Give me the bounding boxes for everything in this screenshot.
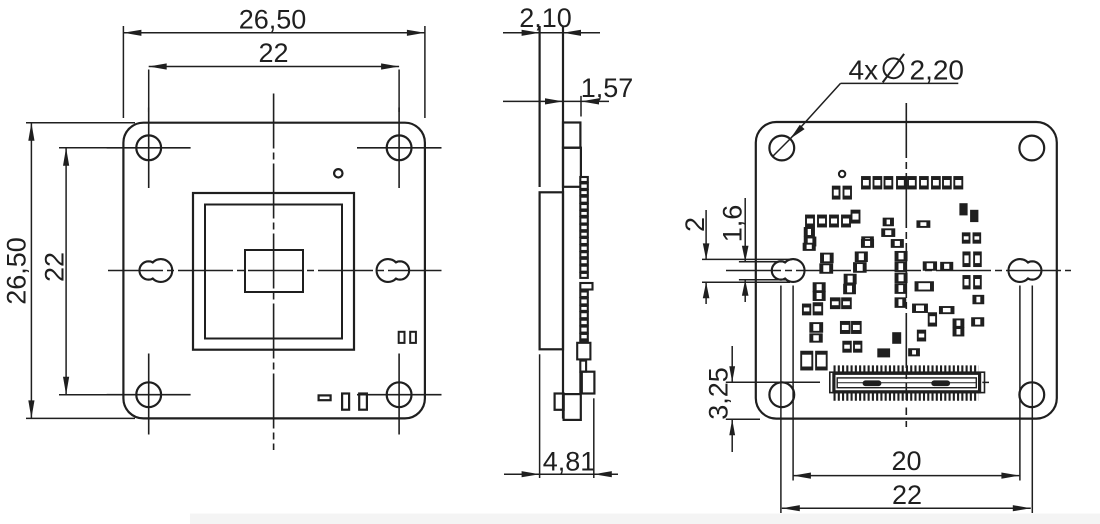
back mounting hole bottom-left (769, 382, 794, 407)
SMD pad P17 (805, 228, 814, 236)
side view lower front extension line (539, 354, 541, 478)
side component box top (563, 123, 580, 148)
SMD pad P50 (893, 333, 900, 343)
connector centerline stub right (982, 381, 989, 383)
side connector body (564, 394, 581, 420)
front component pair bottom (342, 394, 349, 410)
SMD pad P4 (897, 177, 905, 189)
SMD pad P14 (830, 216, 838, 227)
svg-text:1,6: 1,6 (718, 205, 748, 243)
SMD pad P7 (932, 177, 940, 189)
SMD pad P61 (963, 252, 969, 266)
label 4x dia 2,20 (849, 54, 965, 86)
dimension 26,50 top (123, 32, 425, 34)
SMD pad P19 (884, 219, 893, 226)
SMD pad P32 (896, 252, 907, 260)
dimension 2,10 (503, 32, 600, 34)
SMD pad P56 (909, 349, 919, 355)
SMD pad P25 (963, 233, 970, 242)
SMD pad P27 (804, 244, 815, 250)
dimension 20 (793, 475, 1020, 477)
SMD pad P63 (963, 276, 969, 288)
SMD pad P54 (854, 342, 861, 352)
sensor outer square (193, 193, 354, 350)
SMD pad P70 (954, 319, 964, 326)
SMD pad P5 (908, 177, 916, 189)
svg-text:1,57: 1,57 (581, 73, 634, 103)
SMD pad P68 (940, 307, 954, 313)
SMD pad P31 (856, 252, 867, 261)
SMD pad P33 (820, 264, 832, 273)
back mounting hole top-right (1019, 136, 1044, 161)
SMD pad P43 (842, 298, 851, 308)
SMD pad P3 (885, 177, 893, 189)
hole bottom-right crosshair (357, 394, 442, 396)
svg-text:2,10: 2,10 (519, 3, 572, 33)
SMD pad P36 (845, 275, 856, 284)
fiducial circle (334, 169, 342, 177)
SMD pad P72 (954, 328, 964, 335)
SMD pad P6 (920, 177, 928, 189)
side view sensor block (540, 192, 563, 349)
side connector outer (582, 372, 595, 394)
SMD pad P58 (816, 352, 827, 370)
SMD pad P49 (852, 322, 861, 333)
front mounting hole top-left (136, 135, 161, 160)
svg-text:22: 22 (40, 252, 70, 282)
hole top-left crosshair (107, 147, 191, 149)
SMD pad P20 (882, 229, 894, 236)
SMD pad P21 (862, 237, 873, 245)
SMD pad P62 (974, 252, 981, 266)
front mounting hole bottom-right (387, 382, 412, 407)
dimension 22 top (149, 66, 399, 68)
svg-text:22: 22 (258, 38, 288, 68)
dimension 22 bottom (782, 507, 1031, 509)
SMD pad P18 (805, 238, 816, 246)
dimension 1,57 (503, 100, 609, 102)
front mounting hole top-right (387, 135, 412, 160)
SMD pad P35 (896, 262, 907, 271)
leader to top-left hole (790, 83, 840, 138)
SMD pad P51 (918, 331, 925, 341)
SMD pad P2 (874, 177, 882, 189)
svg-text:2,20: 2,20 (910, 55, 965, 86)
SMD pad P16 (852, 211, 860, 223)
back mounting hole bottom-right (1019, 382, 1044, 407)
SMD pad P26 (974, 233, 981, 242)
front small component (319, 395, 331, 400)
front view board outline (123, 123, 425, 419)
front view vertical centerline (273, 94, 275, 451)
SMD pad P13 (818, 216, 826, 227)
back mounting hole top-left (769, 136, 794, 161)
SMD pad P24 (971, 211, 978, 222)
front component pair top (399, 332, 405, 343)
SMD pad P23 (960, 204, 967, 215)
SMD pad P28 (862, 240, 873, 247)
SMD pad P45 (803, 305, 810, 315)
front view horizontal centerline (108, 270, 442, 272)
SMD pad P44 (896, 298, 906, 307)
board-to-board connector (830, 369, 985, 397)
svg-text:22: 22 (892, 480, 922, 510)
svg-text:4,81: 4,81 (543, 447, 596, 477)
back horizontal centerline (726, 270, 1071, 272)
SMD pad P38 (814, 283, 825, 291)
dimension 26,50 left (30, 123, 32, 419)
back vertical centerline (905, 103, 907, 400)
dimension 1,6 (slot small circle) (744, 198, 746, 262)
SMD pad P64 (974, 276, 981, 288)
SMD pad P22 (917, 221, 929, 227)
SMD pad P47 (810, 323, 822, 332)
side connector latch tab (555, 394, 564, 410)
back view board outline (756, 122, 1057, 419)
back left keyhole slot (772, 259, 805, 282)
SMD pad P41 (814, 292, 825, 300)
dimension 2 (slot big circle) (705, 210, 707, 259)
SMD pad P12 (806, 216, 814, 227)
hole top-right crosshair (357, 147, 442, 149)
svg-text:2: 2 (680, 217, 710, 232)
SMD pad P9 (954, 177, 962, 189)
SMD pad P30 (821, 254, 833, 263)
sensor die rectangle (245, 250, 303, 292)
side connector front edge line (579, 372, 581, 394)
SMD pad P8 (943, 177, 951, 189)
SMD pad P69 (929, 313, 936, 325)
leader shoulder under label (841, 82, 959, 84)
footer bar (190, 514, 1100, 524)
dimension 4,81 (504, 473, 618, 475)
SMD pad P65 (916, 282, 934, 290)
side component box second (563, 148, 581, 187)
slot center tick big circle left (792, 286, 794, 481)
SMD pad P57 (801, 352, 812, 370)
front mounting hole bottom-left (136, 382, 161, 407)
hole bottom-left crosshair (107, 394, 191, 396)
slot center tick big circle right (1019, 286, 1021, 481)
SMD pad P46 (814, 303, 823, 314)
dimension 22 left (65, 148, 67, 395)
back via circle (839, 171, 845, 177)
SMD pad P48 (841, 322, 850, 333)
slot center tick small circle right (1031, 286, 1033, 514)
back right keyhole slot (1009, 259, 1042, 282)
svg-text:3,25: 3,25 (704, 367, 734, 420)
SMD pad P29 (892, 240, 903, 247)
front right keyhole slot (377, 259, 410, 282)
SMD pad P11 (844, 187, 852, 199)
SMD pad P53 (843, 342, 851, 352)
hole diameter slash (773, 139, 791, 157)
SMD pad P40 (896, 284, 907, 293)
SMD pad P55 (878, 349, 889, 356)
SMD pad P34 (854, 263, 866, 272)
SMD pad P15 (842, 216, 850, 227)
SMD pad P52 (810, 334, 822, 341)
SMD pad P10 (833, 187, 840, 199)
SMD pad P37 (896, 274, 907, 283)
svg-text:20: 20 (891, 446, 921, 476)
SMD pad P66 (973, 296, 983, 304)
side view pcb back face (562, 26, 564, 419)
dimension 3,25 (731, 346, 733, 382)
front left keyhole slot (140, 259, 173, 282)
SMD pad P67 (913, 305, 927, 313)
SMD pad P71 (972, 318, 983, 325)
svg-text:26,50: 26,50 (2, 237, 32, 305)
slot center tick small circle left (780, 286, 782, 514)
sensor inner square (205, 205, 342, 339)
SMD pad P59 (924, 262, 936, 270)
side view front face line (538, 26, 540, 187)
SMD pad P60 (941, 263, 952, 270)
svg-text:26,50: 26,50 (239, 5, 307, 35)
SMD pad P39 (844, 285, 855, 294)
svg-text:4x: 4x (849, 55, 879, 86)
SMD pad P42 (831, 298, 840, 308)
SMD pad P1 (862, 177, 870, 189)
side smd profile strip (577, 177, 592, 372)
